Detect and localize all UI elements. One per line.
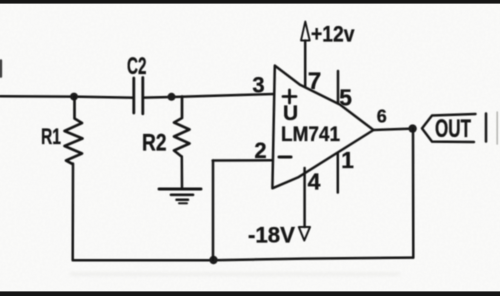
resistor R2 — [174, 97, 190, 157]
svg-text:6: 6 — [377, 107, 387, 127]
node A junction dot (R1 / main wire) — [70, 93, 78, 101]
capacitor C2 left plate — [132, 78, 135, 113]
-18V supply arrow — [299, 227, 310, 241]
wire: R2 to ground — [181, 157, 184, 188]
wire: pin 6 output — [374, 129, 413, 130]
svg-text:4: 4 — [308, 169, 321, 195]
wire: input to C2 left plate — [0, 96, 133, 98]
wire: C2 to op-amp pin 3 — [144, 94, 274, 98]
svg-text:5: 5 — [339, 85, 352, 111]
op-amp - input marking — [279, 156, 291, 159]
node D junction dot (output / feedback) — [408, 124, 416, 132]
svg-text:1: 1 — [341, 147, 354, 173]
node B junction dot (C2 / R2 / main wire) — [168, 93, 176, 101]
pin 1 stub — [337, 154, 340, 193]
wire: R1 bottom lead down to feedback rail — [71, 164, 74, 261]
svg-text:OUT: OUT — [435, 115, 471, 143]
input stub (cut-off connector at left edge) — [0, 61, 2, 77]
node C junction dot (feedback / pin 2 tap) — [209, 256, 217, 264]
svg-text:7: 7 — [308, 68, 321, 95]
OUT tag right tick — [485, 114, 488, 142]
svg-text:LM741: LM741 — [281, 122, 340, 146]
wire: feedback bottom rail — [73, 258, 414, 261]
wire: pin 7 to +12V — [304, 41, 307, 88]
ground — [159, 188, 201, 191]
svg-text:+12v: +12v — [311, 22, 355, 47]
svg-text:-18V: -18V — [248, 223, 295, 248]
svg-text:R2: R2 — [142, 130, 167, 157]
capacitor C2 right plate — [141, 78, 144, 114]
pin 5 stub — [337, 71, 340, 103]
+12V supply arrow — [301, 22, 310, 41]
op-amp U1 LM741 triangle — [272, 66, 373, 189]
svg-text:U: U — [283, 102, 298, 125]
wire: faint continuation at right edge — [496, 112, 498, 144]
resistor R1 — [65, 97, 83, 165]
wire: output feedback vertical — [412, 129, 415, 258]
svg-text:3: 3 — [252, 73, 264, 98]
OUT tag outline — [422, 114, 476, 142]
wire: pin 4 to -18V — [303, 168, 306, 227]
svg-text:2: 2 — [254, 138, 266, 163]
op-amp + input marking — [283, 95, 296, 98]
wire: pin 2 tap vertical — [212, 161, 215, 261]
wire: pin 2 horizontal into op-amp — [213, 159, 273, 162]
svg-text:C2: C2 — [127, 53, 147, 80]
svg-text:R1: R1 — [41, 124, 61, 149]
